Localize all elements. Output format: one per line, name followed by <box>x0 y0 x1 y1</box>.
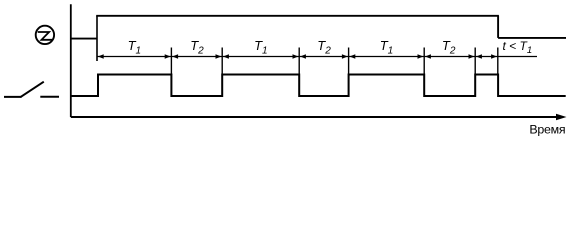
arrowheads at 222.2 <box>216 54 222 59</box>
extension line at end of t<T1 <box>497 48 499 76</box>
generator G1 (circle) <box>36 26 54 44</box>
generator signal rising edge + extension line at T1 start <box>96 16 98 61</box>
extension line at end of T1#3 <box>423 48 425 76</box>
extension line at end of T1#1 <box>170 48 172 76</box>
dimension line tail under t<T1 label <box>498 56 537 58</box>
svg-text:Время: Время <box>529 123 565 137</box>
arrowheads at 348.6 <box>342 54 348 59</box>
arrowheads at 171.4 <box>165 54 171 59</box>
vertical axis <box>70 4 72 117</box>
time axis arrowhead <box>556 114 567 121</box>
dimension line <box>97 56 498 58</box>
switch waveform <box>71 75 566 97</box>
generator signal falling edge <box>497 16 499 38</box>
switch S1 right lead <box>40 96 59 98</box>
arrowheads at 299.2 <box>293 54 299 59</box>
generator signal right tail at mid level <box>498 37 566 39</box>
extension line at end of T2#3 <box>474 48 476 76</box>
extension line at end of T2#2 <box>348 48 350 76</box>
extension line at end of T2#1 <box>221 48 223 76</box>
switch S1 left lead <box>4 96 22 98</box>
generator signal: left stub at mid level <box>71 38 97 40</box>
generator G1 sawtooth glyph <box>38 32 53 40</box>
switch S1 lever <box>20 82 44 98</box>
arrowheads at 424.2 <box>418 54 424 59</box>
time axis <box>71 116 558 118</box>
extension line at end of T1#2 <box>298 48 300 76</box>
generator signal high level <box>96 15 499 17</box>
arrowhead right at 497.8 <box>491 54 497 59</box>
arrowheads at 475.2 <box>469 54 475 59</box>
arrowhead left at 97 <box>98 54 104 59</box>
